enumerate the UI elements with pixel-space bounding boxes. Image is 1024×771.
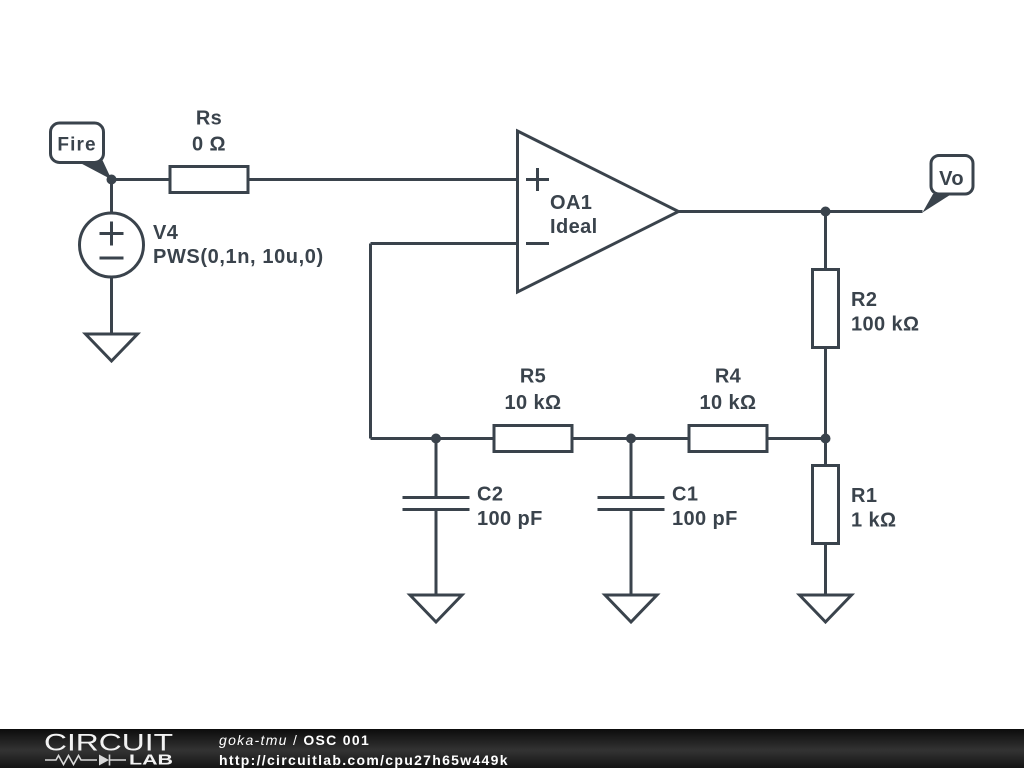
svg-text:Vo: Vo <box>939 168 964 190</box>
ground (below C2) <box>410 595 462 622</box>
flag label Fire <box>51 123 112 180</box>
label OA1 name and model "Ideal" <box>550 192 598 238</box>
svg-text:10 kΩ: 10 kΩ <box>700 392 757 414</box>
svg-text:C1: C1 <box>672 484 698 506</box>
svg-text:Ideal: Ideal <box>550 216 598 238</box>
wire: feedback vertical segment <box>369 244 372 439</box>
capacitor C1 <box>598 498 665 510</box>
wire: Rs right lead to op-amp non-inverting input <box>248 178 518 181</box>
resistor R4 <box>689 426 767 452</box>
voltage source V4 <box>80 213 144 277</box>
svg-text:R4: R4 <box>715 366 742 388</box>
wire: R4 right lead to output node <box>767 437 826 440</box>
svg-text:C2: C2 <box>477 484 503 506</box>
svg-text:100 pF: 100 pF <box>672 508 738 530</box>
wire: Fire node down to V4 top <box>110 180 113 214</box>
node output junction dot <box>821 207 831 217</box>
label C1 name and value "100 pF" <box>672 484 738 530</box>
wire: R1 bottom to ground <box>824 544 827 596</box>
node Fire junction dot <box>107 175 117 185</box>
svg-text:R1: R1 <box>851 485 877 507</box>
label Rs name and value "0 Ω" <box>192 108 226 156</box>
wire: node down to C2 top plate <box>435 439 438 497</box>
wire: output node down to R2 top <box>824 212 827 270</box>
wire: inverting input to feedback corner <box>371 242 518 245</box>
label C2 name and value "100 pF" <box>477 484 543 530</box>
svg-text:PWS(0,1n, 10u,0): PWS(0,1n, 10u,0) <box>153 246 324 268</box>
wire: V4 bottom to ground <box>110 277 113 334</box>
resistor Rs <box>170 167 248 193</box>
svg-text:0 Ω: 0 Ω <box>192 134 226 156</box>
op-amp OA1 <box>518 131 679 292</box>
svg-text:Rs: Rs <box>196 108 222 130</box>
svg-text:1 kΩ: 1 kΩ <box>851 510 896 532</box>
svg-text:100 pF: 100 pF <box>477 508 543 530</box>
svg-text:V4: V4 <box>153 222 179 244</box>
ground (below C1) <box>605 595 657 622</box>
label R2 name and value "100 kΩ" <box>851 289 919 336</box>
svg-text:LAB: LAB <box>129 752 173 769</box>
node C2/R5 junction dot <box>431 434 441 444</box>
capacitor C2 <box>403 498 470 510</box>
label R1 name and value "1 kΩ" <box>851 485 896 532</box>
wire: node down to C1 top plate <box>630 439 633 497</box>
label R5 name and value "10 kΩ" <box>505 366 562 415</box>
label R4 name and value "10 kΩ" <box>700 366 757 415</box>
svg-text:OA1: OA1 <box>550 192 592 214</box>
svg-text:Fire: Fire <box>57 135 96 156</box>
label V4 name and value "PWS(0,1n, 10u,0)" <box>153 222 324 268</box>
wire: Fire node to Rs left lead <box>112 178 171 181</box>
ground (below R1) <box>800 595 852 622</box>
svg-text:R5: R5 <box>520 366 546 388</box>
resistor R5 <box>494 426 572 452</box>
wire: R2 bottom to bottom-right node <box>824 348 827 439</box>
svg-text:10 kΩ: 10 kΩ <box>505 392 562 414</box>
node R4/R2/R1 junction dot <box>821 434 831 444</box>
wire: C2 bottom plate to ground <box>435 511 438 596</box>
wire: op-amp output to Vo flag <box>679 210 923 213</box>
svg-text:R2: R2 <box>851 289 877 311</box>
wire: node down to R1 top <box>824 439 827 466</box>
resistor R1 <box>813 466 839 544</box>
wire: feedback corner to C2 node and R5 left lead <box>371 437 495 440</box>
resistor R2 <box>813 270 839 348</box>
flag label Vo <box>923 156 974 213</box>
svg-text:100 kΩ: 100 kΩ <box>851 314 919 336</box>
ground (below V4) <box>86 334 138 361</box>
wire: R5 right lead to C1 node and R4 left lead <box>572 437 689 440</box>
wire: C1 bottom plate to ground <box>630 511 633 596</box>
node C1/R5/R4 junction dot <box>626 434 636 444</box>
